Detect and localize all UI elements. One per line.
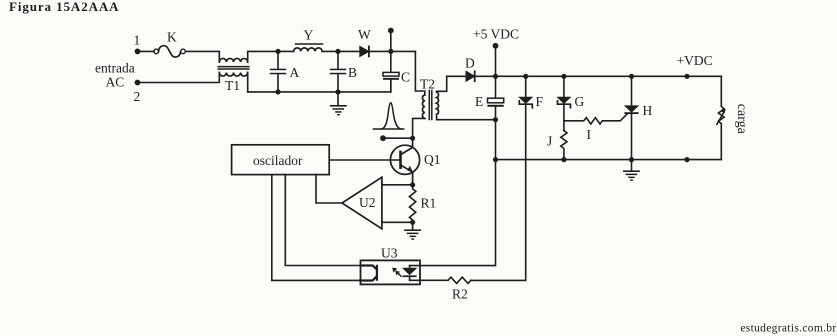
svg-text:T1: T1 <box>225 78 240 93</box>
transformer T2 secondary winding <box>437 92 439 114</box>
diode D <box>466 71 475 81</box>
wire rail to T2 primary <box>415 51 424 95</box>
svg-text:J: J <box>547 134 552 149</box>
wire terminal1 to fuse <box>138 50 155 52</box>
carga load branch <box>718 76 724 159</box>
node B top junction <box>335 49 340 54</box>
svg-text:U3: U3 <box>381 246 398 261</box>
wire W to C junction <box>369 50 416 52</box>
carga arrow <box>717 113 724 125</box>
secondary ground rail <box>496 159 722 161</box>
waveform spike icon <box>373 128 403 130</box>
resistor R1 <box>409 185 415 223</box>
svg-text:R2: R2 <box>452 287 468 302</box>
ground under H <box>631 160 633 171</box>
zener G <box>563 76 565 97</box>
svg-text:Figura 15A2AAA: Figura 15A2AAA <box>9 0 119 14</box>
+5 VDC stem <box>495 46 497 77</box>
svg-text:entrada: entrada <box>95 61 135 76</box>
svg-text:G: G <box>575 94 585 109</box>
wire T2 primary bottom to Q1 collector node <box>413 118 425 138</box>
wire secondary top to diode D <box>437 76 466 92</box>
wire fuse to T1 <box>185 51 219 62</box>
capacitor E electrolytic <box>495 76 497 119</box>
transformer T1 <box>219 58 247 62</box>
ground under B <box>337 92 339 106</box>
node E bottom junction <box>493 117 498 122</box>
svg-text:2: 2 <box>134 89 141 104</box>
svg-text:K: K <box>167 30 177 45</box>
emitter node <box>410 182 415 187</box>
svg-text:AC: AC <box>106 74 125 89</box>
zener F <box>525 76 527 97</box>
node 1 terminal <box>135 49 141 55</box>
wire U2 output to oscillator <box>316 175 342 203</box>
wire oscillator to Q1 base <box>329 159 399 161</box>
svg-text:W: W <box>358 27 371 42</box>
capacitor A <box>277 51 279 92</box>
inductor Y <box>294 48 322 52</box>
wire Y to B junction <box>322 50 360 52</box>
svg-text:1: 1 <box>134 33 141 48</box>
capacitor B <box>337 51 339 92</box>
svg-text:E: E <box>475 94 483 109</box>
svg-text:T2: T2 <box>420 77 435 92</box>
svg-text:oscilador: oscilador <box>253 153 303 168</box>
svg-text:carga: carga <box>734 104 749 135</box>
bottom rail primary side <box>248 80 391 92</box>
U2 input wires <box>382 184 413 186</box>
wire E node down to ground rail <box>495 120 497 160</box>
wire T1 bottom-right to bottom rail <box>247 73 249 92</box>
svg-text:F: F <box>536 94 544 109</box>
resistor I and SCR gate wire <box>564 114 627 124</box>
stub terminal above W junction <box>390 31 392 52</box>
optocoupler U3 box <box>361 260 421 284</box>
secondary top rail <box>475 75 722 77</box>
wire T1 top-right to rail <box>248 51 294 62</box>
svg-text:Q1: Q1 <box>424 152 441 167</box>
svg-text:I: I <box>587 127 592 142</box>
T2 core <box>429 91 432 120</box>
oscillator box <box>232 145 330 175</box>
node 2 terminal <box>135 80 141 86</box>
svg-text:Y: Y <box>304 28 314 43</box>
svg-text:C: C <box>401 70 410 85</box>
svg-text:R1: R1 <box>421 196 437 211</box>
fuse K <box>154 49 159 54</box>
resistor R2 <box>448 277 471 283</box>
capacitor C electrolytic <box>390 51 392 92</box>
oscillator wires to U3 <box>272 175 361 281</box>
svg-text:B: B <box>348 65 357 80</box>
collector node and probe line <box>410 136 415 141</box>
op-amp U2 <box>342 177 382 229</box>
U3 LED <box>361 266 377 281</box>
resistor J <box>561 131 567 160</box>
node C top junction <box>388 49 393 54</box>
ground under R1 <box>412 222 414 229</box>
svg-text:H: H <box>643 103 653 118</box>
wire secondary bottom to node E <box>437 114 496 119</box>
node A top junction <box>275 49 280 54</box>
U3 photodiode <box>409 266 411 269</box>
transformer T2 primary winding <box>422 95 424 118</box>
SCR H <box>631 76 633 106</box>
svg-text:A: A <box>290 65 300 80</box>
U3 right pins <box>410 160 496 266</box>
diode W <box>360 46 369 56</box>
svg-text:+5 VDC: +5 VDC <box>473 27 519 42</box>
transistor Q1 <box>390 145 419 174</box>
svg-text:U2: U2 <box>359 195 376 210</box>
wire T1 bottom-left to terminal 2 <box>138 73 220 83</box>
svg-text:estudegratis.com.br: estudegratis.com.br <box>740 323 836 335</box>
svg-text:+VDC: +VDC <box>677 53 713 68</box>
light arrows <box>396 271 399 274</box>
svg-text:D: D <box>465 56 475 71</box>
